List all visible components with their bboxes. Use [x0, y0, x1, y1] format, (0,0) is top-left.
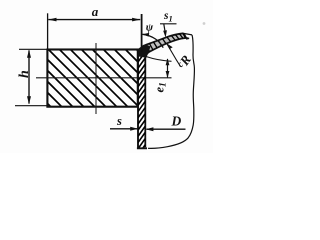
root tangent tick (e1 upper reference) — [146, 57, 172, 62]
dim h bottom arrow — [27, 96, 31, 104]
dim h line — [28, 50, 30, 103]
horizontal centerline — [36, 77, 172, 79]
flange outer (upper) edge — [139, 33, 184, 52]
svg-text:h: h — [17, 70, 32, 78]
dim D arrow — [146, 127, 154, 131]
flange tip closure — [184, 34, 187, 40]
dim h bottom extension — [15, 105, 47, 107]
svg-text:a: a — [92, 4, 99, 19]
dim D line — [147, 128, 186, 130]
psi arc arrowhead — [142, 33, 149, 37]
break curve (freehand boundary of part) — [148, 35, 194, 148]
dim e1 bottom arrow — [166, 71, 170, 78]
dim a left extension — [47, 13, 49, 49]
dim a line — [48, 19, 140, 21]
svg-text:D: D — [171, 113, 182, 128]
dim a right arrow — [132, 18, 140, 22]
flange band tint — [139, 33, 187, 57]
die block hatch — [0, 49, 194, 107]
tube wall bottom cap — [137, 147, 147, 149]
dim h top extension — [19, 48, 47, 50]
dim s arrow — [130, 127, 138, 131]
svg-text:ψ: ψ — [146, 21, 154, 33]
s1 arrow — [164, 24, 165, 33]
tube wall left edge — [137, 50, 139, 149]
psi angle arc — [143, 34, 164, 47]
scan speck — [203, 22, 206, 25]
Rc leader line — [167, 44, 181, 67]
flange inner (lower) edge — [146, 38, 189, 57]
tube wall hatch — [138, 52, 145, 156]
vertical centerline — [95, 43, 97, 114]
die block outline — [47, 50, 137, 107]
s1 leader line — [160, 23, 177, 25]
Rc leader arrowhead — [167, 43, 173, 49]
flange upper edge tip extension — [184, 33, 193, 35]
dim s line — [110, 128, 137, 130]
dim e1 line — [167, 59, 169, 77]
flange hatch — [142, 34, 186, 54]
dim h top arrow — [27, 50, 31, 58]
dim a right extension — [141, 14, 143, 52]
flange root dark mass — [138, 45, 150, 58]
svg-text:s: s — [116, 114, 122, 128]
tube wall right edge — [144, 57, 146, 148]
dim a left arrow — [48, 18, 56, 22]
dim e1 top arrow — [166, 58, 170, 65]
